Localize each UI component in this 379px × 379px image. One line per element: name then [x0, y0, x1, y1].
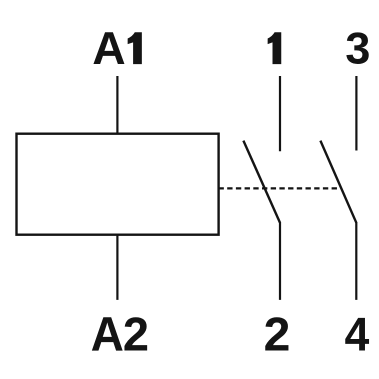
terminal label 3 [346, 32, 368, 64]
wire A1 lead [116, 76, 118, 134]
wire A2 lead [116, 235, 118, 300]
wire contact 4 bottom lead [355, 222, 357, 300]
terminal label 2 [265, 317, 288, 350]
coil K1 (contactor coil rectangle) [17, 134, 219, 235]
wire contact 3 top lead [355, 76, 357, 151]
wire contact 1 top lead [279, 76, 281, 151]
wire contact 2 bottom lead [279, 222, 281, 300]
contact switch 1-2 moving blade [243, 141, 280, 223]
contact switch 3-4 moving blade [320, 141, 356, 223]
mechanical linkage (dashed) [219, 187, 337, 189]
terminal label A1 [93, 32, 141, 64]
terminal label 4 [345, 318, 369, 351]
terminal label A2 [92, 317, 147, 350]
terminal label 1 [268, 32, 282, 64]
